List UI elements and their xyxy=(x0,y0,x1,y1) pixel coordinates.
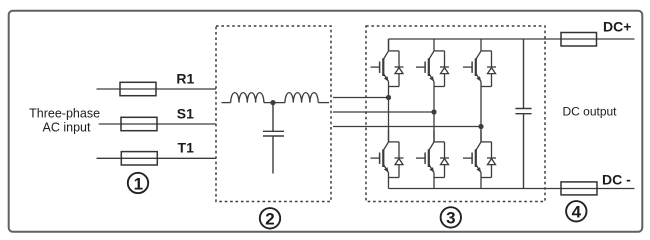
svg-text:R1: R1 xyxy=(176,71,194,87)
callout 3 (bridge section) xyxy=(441,207,461,227)
wire leg 1 midpoint vertical xyxy=(388,82,390,142)
IGBT Q4 with diode D4 (leg2 bottom) xyxy=(416,130,449,178)
fuse S1 xyxy=(121,117,157,130)
wire DC+ bus xyxy=(389,39,635,189)
svg-text:T1: T1 xyxy=(178,140,195,156)
svg-text:DC output: DC output xyxy=(562,104,617,118)
svg-text:DC -: DC - xyxy=(602,171,631,187)
node phase B junction xyxy=(431,109,436,114)
wire filter input segment xyxy=(222,102,231,104)
svg-text:S1: S1 xyxy=(177,106,194,122)
fuse F- (DC- output) xyxy=(561,182,597,195)
capacitor C1 (filter) xyxy=(263,103,284,174)
node filter midpoint xyxy=(270,100,275,105)
svg-text:AC input: AC input xyxy=(43,121,91,135)
svg-text:3: 3 xyxy=(446,209,455,228)
callout 4 (output fuses section) xyxy=(566,201,586,221)
IGBT Q3 with diode D3 (leg2 top) xyxy=(416,39,449,87)
IGBT Q5 with diode D5 (leg3 top) xyxy=(463,39,496,87)
wire phase T input xyxy=(97,157,217,159)
fuse T1 xyxy=(121,152,157,165)
callout 1 (input fuses section) xyxy=(128,173,148,193)
inductor L2 xyxy=(285,93,318,103)
wire phase R input xyxy=(97,88,217,90)
callout 2 (filter section) xyxy=(260,208,280,228)
wire phase A to bridge xyxy=(333,97,389,99)
wire phase B to bridge xyxy=(333,111,434,113)
svg-text:Three-phase: Three-phase xyxy=(29,107,100,121)
capacitor C2 (DC link) xyxy=(515,39,531,189)
wire leg 2 midpoint vertical xyxy=(433,82,435,142)
IGBT Q6 with diode D6 (leg3 bottom) xyxy=(463,130,496,178)
fuse F+ (DC+ output) xyxy=(561,33,597,47)
node phase A junction xyxy=(386,95,391,100)
node phase C junction xyxy=(478,124,483,129)
fuse R1 xyxy=(120,82,156,95)
wire leg 2 emitter to bus xyxy=(433,173,435,189)
svg-text:2: 2 xyxy=(265,210,274,229)
IGBT Q1 with diode D1 (leg1 top) xyxy=(371,39,404,87)
dashed box 2 (EMI filter) xyxy=(216,26,331,202)
IGBT Q2 with diode D2 (leg1 bottom) xyxy=(371,130,404,178)
wire DC- bus xyxy=(389,39,635,189)
wire phase C to bridge xyxy=(333,126,481,128)
svg-text:DC+: DC+ xyxy=(603,19,631,35)
wire filter output segment xyxy=(318,102,329,104)
wire filter middle segment xyxy=(264,102,285,104)
dashed box 3 (IGBT bridge) xyxy=(366,26,545,202)
inductor L1 xyxy=(231,93,264,103)
wire phase S input xyxy=(99,123,216,125)
svg-text:4: 4 xyxy=(572,203,582,222)
svg-text:1: 1 xyxy=(134,174,143,193)
wire leg 3 midpoint vertical xyxy=(480,82,482,142)
wire leg 3 emitter to bus xyxy=(480,173,482,189)
